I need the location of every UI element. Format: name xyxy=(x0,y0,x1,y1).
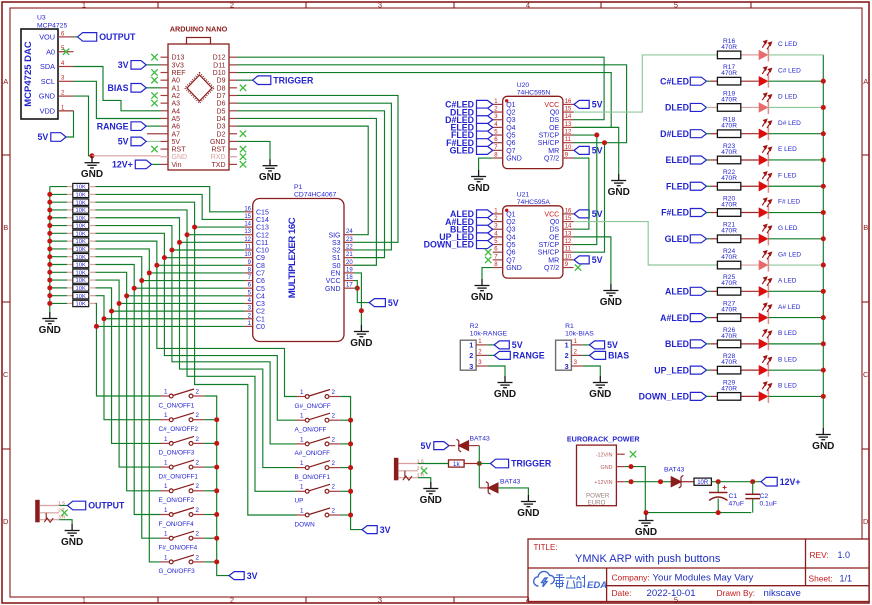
svg-text:1: 1 xyxy=(300,389,304,396)
switch D_ON/OFF3 xyxy=(161,436,205,445)
svg-text:1: 1 xyxy=(164,554,168,561)
junction 10K bus row 4 xyxy=(47,207,52,212)
svg-text:F#_ON/OFF4: F#_ON/OFF4 xyxy=(159,545,198,552)
svg-text:SH/CP: SH/CP xyxy=(538,140,560,147)
svg-text:E LED: E LED xyxy=(778,146,797,153)
junction staircase row 10 xyxy=(139,278,144,283)
net label 3V left column xyxy=(229,572,244,580)
svg-text:Q5: Q5 xyxy=(506,133,515,140)
net label 5V at R2.1 xyxy=(487,344,494,346)
wire LED R22 to bus xyxy=(768,185,823,187)
svg-text:U21: U21 xyxy=(517,192,530,199)
svg-text:1k: 1k xyxy=(453,461,461,468)
svg-text:C LED: C LED xyxy=(778,41,797,48)
svg-text:EURORACK_POWER: EURORACK_POWER xyxy=(567,435,640,444)
svg-text:A0: A0 xyxy=(46,47,55,56)
svg-text:C0: C0 xyxy=(256,324,265,331)
net label D#LED at U20 pin 3 xyxy=(477,116,493,124)
svg-text:C8: C8 xyxy=(256,263,265,270)
svg-text:5V: 5V xyxy=(172,139,181,146)
resistor R20 470R xyxy=(741,212,759,214)
no-connect ARDUINO A0 xyxy=(151,77,157,83)
svg-text:Q4: Q4 xyxy=(506,125,515,132)
resistor 10K row 1 xyxy=(50,186,67,188)
svg-text:2022-10-01: 2022-10-01 xyxy=(647,588,696,599)
svg-text:GND: GND xyxy=(494,389,516,400)
svg-text:D_ON/OFF3: D_ON/OFF3 xyxy=(159,450,195,457)
LED B LED xyxy=(759,365,769,375)
junction 10K bus row 14 xyxy=(47,285,52,290)
wire LED R24 to bus xyxy=(768,264,823,266)
svg-text:VDD: VDD xyxy=(40,107,55,116)
junction LED bus xyxy=(821,236,826,241)
svg-text:GND: GND xyxy=(635,527,657,538)
wire U21 Q0 to R24 xyxy=(574,222,718,265)
svg-text:470R: 470R xyxy=(721,333,737,340)
svg-text:G#_ON/OFF: G#_ON/OFF xyxy=(295,403,331,410)
svg-text:5V: 5V xyxy=(592,255,603,265)
svg-text:1: 1 xyxy=(300,436,304,443)
svg-text:C4: C4 xyxy=(256,293,265,300)
wire P1 SIG to ARDUINO D3 xyxy=(237,126,368,235)
net label DLED at U20 pin 2 xyxy=(477,108,493,116)
wire U20 Q0 to R16 xyxy=(574,55,718,112)
svg-text:D: D xyxy=(3,517,9,526)
svg-text:470R: 470R xyxy=(721,201,737,208)
svg-text:11: 11 xyxy=(245,245,252,251)
net label DOWN_LED at U21 pin 5 xyxy=(477,241,493,249)
no-connect U21 Q7/2 xyxy=(575,264,581,270)
wire U21 OE to ground xyxy=(574,237,611,284)
wire P1 S3 to ARDUINO D7 xyxy=(237,95,398,242)
svg-text:1.0: 1.0 xyxy=(838,550,851,560)
svg-text:GND: GND xyxy=(608,187,630,198)
svg-text:YMNK ARP with push buttons: YMNK ARP with push buttons xyxy=(575,553,721,565)
junction right switch bus xyxy=(348,441,353,446)
no-connect ARDUINO RST xyxy=(151,146,157,152)
svg-text:C2: C2 xyxy=(760,493,769,500)
left switch bus to 3V xyxy=(204,396,229,576)
no-connect TRIGGER jack T xyxy=(421,468,427,474)
resistor 10K row 11 xyxy=(50,264,67,266)
svg-text:C#LED: C#LED xyxy=(660,76,689,86)
wire LED R27 to bus xyxy=(768,317,823,319)
svg-text:B: B xyxy=(863,223,868,232)
wire switch G_ON/OFF3 to bus xyxy=(204,561,217,563)
svg-text:2: 2 xyxy=(230,0,234,9)
svg-text:C15: C15 xyxy=(256,209,269,216)
net label RANGE at ARDUINO A6 xyxy=(146,125,160,127)
svg-text:B: B xyxy=(3,223,8,232)
resistor 10K row 15 xyxy=(50,295,67,297)
wire U20 Q7/2 cascade to U21 DS xyxy=(574,158,589,229)
svg-text:2: 2 xyxy=(332,507,336,514)
svg-text:1: 1 xyxy=(164,483,168,490)
svg-text:47uF: 47uF xyxy=(729,501,745,508)
svg-text:23: 23 xyxy=(346,237,353,243)
svg-text:10K: 10K xyxy=(76,208,86,214)
switch F_ON/OFF4 xyxy=(161,508,205,517)
resistor 10K row 6 xyxy=(50,225,67,227)
wire U3 SCL to ARDUINO A5 xyxy=(74,81,161,118)
resistor R19 470R xyxy=(741,106,759,108)
wire switch UP to bus xyxy=(340,490,350,492)
wire ARDUINO D11 to U20 SH/CP xyxy=(237,65,627,143)
svg-text:470R: 470R xyxy=(721,175,737,182)
wire LED R16 to bus xyxy=(768,54,823,56)
wire 10K row 2 to P1 C14 xyxy=(96,194,245,219)
svg-text:1: 1 xyxy=(164,388,168,395)
wire LED R26 to bus xyxy=(768,343,823,345)
svg-text:5V: 5V xyxy=(592,100,603,110)
junction left switch bus xyxy=(214,417,219,422)
net label C#LED at U20 pin 1 xyxy=(477,100,493,108)
net label 5V at U20 VCC xyxy=(574,100,589,108)
svg-text:G# LED: G# LED xyxy=(778,251,801,258)
svg-text:10K: 10K xyxy=(76,286,86,292)
svg-text:nikscave: nikscave xyxy=(764,588,801,599)
resistor R25 470R xyxy=(741,290,759,292)
junction LED bus xyxy=(821,341,826,346)
svg-text:GLED: GLED xyxy=(450,146,474,156)
ground below OUTPUT jack xyxy=(65,524,80,536)
svg-text:470R: 470R xyxy=(721,96,737,103)
svg-text:5V: 5V xyxy=(421,441,432,451)
svg-text:D7: D7 xyxy=(217,93,226,100)
svg-text:ELED: ELED xyxy=(666,155,689,165)
wire 10K row 9 to P1 C7 and switch 8 left column xyxy=(96,249,161,562)
svg-text:2: 2 xyxy=(565,351,569,360)
svg-text:GND: GND xyxy=(601,465,613,471)
LED B LED xyxy=(759,391,769,401)
svg-text:3: 3 xyxy=(469,362,473,371)
wire switch D#_ON/OFF1 to bus xyxy=(204,466,217,468)
LED A LED xyxy=(759,286,769,296)
switch D#_ON/OFF1 xyxy=(161,460,205,469)
svg-text:10K: 10K xyxy=(76,263,86,269)
wire 10K row 14 to P1 C2 and switch 3 left column xyxy=(96,288,161,444)
resistor 10K row 9 xyxy=(50,248,67,250)
wire diode to 10R xyxy=(681,481,694,483)
svg-text:C# LED: C# LED xyxy=(778,67,801,74)
switch A_ON/OFF xyxy=(297,413,341,422)
wire U20 ST/CP to U21 ST/CP xyxy=(574,134,597,136)
svg-text:GND: GND xyxy=(350,338,372,349)
wire LED R21 to bus xyxy=(768,238,823,240)
net label ALED feeding R25 xyxy=(690,287,706,295)
LED A# LED xyxy=(759,312,769,322)
svg-text:DLED: DLED xyxy=(665,103,689,113)
wire LED R29 to bus xyxy=(768,395,823,397)
svg-text:1: 1 xyxy=(164,507,168,514)
svg-text:A5: A5 xyxy=(172,116,181,123)
svg-text:D2: D2 xyxy=(217,131,226,138)
stub wire at ARDUINO A7 xyxy=(147,133,161,135)
svg-text:A7: A7 xyxy=(172,131,181,138)
svg-text:S1: S1 xyxy=(332,255,341,262)
svg-text:3V: 3V xyxy=(118,60,129,70)
svg-text:21: 21 xyxy=(346,252,353,258)
svg-text:16: 16 xyxy=(244,206,251,212)
junction 10K bus row 13 xyxy=(47,278,52,283)
net label FLED feeding R22 xyxy=(690,182,706,190)
resistor 10K row 13 xyxy=(50,279,67,281)
svg-text:3: 3 xyxy=(565,362,569,371)
svg-text:D4: D4 xyxy=(217,116,226,123)
svg-text:C2: C2 xyxy=(256,309,265,316)
junction 10K bus row 3 xyxy=(47,200,52,205)
switch F#_ON/OFF4 xyxy=(161,531,205,540)
svg-text:D LED: D LED xyxy=(778,94,797,101)
LED C LED xyxy=(759,50,769,60)
junction staircase row 8 xyxy=(154,263,159,268)
net label UP_LED feeding R28 xyxy=(690,366,706,374)
svg-text:G_ON/OFF3: G_ON/OFF3 xyxy=(159,568,196,575)
svg-text:15: 15 xyxy=(565,216,572,222)
wire LED R18 to bus xyxy=(768,133,823,135)
svg-text:11: 11 xyxy=(565,247,572,253)
wire U3 VDD to 5V flag xyxy=(58,110,74,112)
svg-text:B LED: B LED xyxy=(778,383,797,390)
ground right of ARDUINO xyxy=(263,159,278,171)
junction 10K bus row 12 xyxy=(47,270,52,275)
wire switch A_ON/OFF to bus xyxy=(340,419,350,421)
svg-text:D6: D6 xyxy=(217,101,226,108)
net label 5V at R1.1 xyxy=(583,344,590,346)
svg-text:20: 20 xyxy=(346,260,353,266)
svg-text:D: D xyxy=(863,517,869,526)
svg-text:GND: GND xyxy=(506,265,522,272)
svg-text:10R: 10R xyxy=(697,480,709,486)
resistor 1k xyxy=(449,460,465,467)
ground below power xyxy=(639,514,654,526)
svg-text:C11: C11 xyxy=(256,240,268,247)
svg-text:RST: RST xyxy=(172,147,187,154)
svg-text:GND: GND xyxy=(517,508,539,519)
svg-text:GND: GND xyxy=(812,441,834,452)
svg-text:MR: MR xyxy=(548,257,559,264)
title block xyxy=(528,539,869,602)
svg-text:UP: UP xyxy=(295,498,304,505)
svg-text:A#_ON/OFF: A#_ON/OFF xyxy=(295,450,331,457)
junction 10K bus row 6 xyxy=(47,223,52,228)
svg-text:Q6: Q6 xyxy=(506,140,515,147)
svg-text:10K: 10K xyxy=(76,192,86,198)
junction left switch bus xyxy=(214,465,219,470)
net label 3V at ARDUINO 3V3 xyxy=(146,64,160,66)
LED F# LED xyxy=(759,207,769,217)
svg-text:470R: 470R xyxy=(721,228,737,235)
LED E LED xyxy=(759,155,769,165)
svg-text:+12VIN: +12VIN xyxy=(594,480,612,486)
svg-text:EN: EN xyxy=(331,271,341,278)
wire switch F#_ON/OFF4 to bus xyxy=(204,537,217,539)
resistor 10K row 10 xyxy=(50,256,67,258)
wire 10K row 5 to P1 C11 and switch column right xyxy=(96,218,297,468)
junction SH/CP xyxy=(602,140,607,145)
wire LED R28 to bus xyxy=(768,369,823,371)
svg-text:470R: 470R xyxy=(721,307,737,314)
svg-text:19: 19 xyxy=(346,267,353,273)
net label BIAS at R1.2 xyxy=(583,354,590,356)
svg-text:1: 1 xyxy=(300,507,304,514)
svg-text:12V+: 12V+ xyxy=(112,160,133,170)
net label ALED at U21 pin 1 xyxy=(477,210,493,218)
wire R1.3 to ground xyxy=(583,366,601,376)
junction left switch bus xyxy=(214,441,219,446)
resistor 10K row 14 xyxy=(50,287,67,289)
junction C2 top xyxy=(750,479,755,484)
svg-text:GND: GND xyxy=(39,325,61,336)
svg-text:P1: P1 xyxy=(294,184,303,191)
net label GLED at U20 pin 7 xyxy=(477,146,493,154)
no-connect ARDUINO A2 xyxy=(151,92,157,98)
resistor 10K row 7 xyxy=(50,232,67,234)
junction C1 top xyxy=(716,479,721,484)
svg-text:TITLE:: TITLE: xyxy=(534,543,558,552)
svg-text:A: A xyxy=(863,77,868,86)
svg-text:1: 1 xyxy=(565,341,569,350)
switch UP xyxy=(297,484,341,493)
svg-text:C12: C12 xyxy=(256,232,269,239)
capacitor C2 0.1uF xyxy=(752,482,754,495)
svg-text:10K: 10K xyxy=(76,231,86,237)
svg-text:GND: GND xyxy=(471,292,493,303)
junction U3 GND / ARDUINO GND xyxy=(90,153,95,158)
net label 3V right column xyxy=(362,526,377,534)
junction TRIGGER node xyxy=(477,461,482,466)
svg-text:EDA: EDA xyxy=(587,580,607,591)
net label BIAS at ARDUINO A1 xyxy=(146,87,160,89)
svg-text:Drawn By:: Drawn By: xyxy=(717,588,756,598)
wire P1 S2 to ARDUINO D6 xyxy=(237,103,391,250)
svg-text:14: 14 xyxy=(565,114,572,120)
junction staircase row 7 xyxy=(162,255,167,260)
net label UP_LED at U21 pin 4 xyxy=(477,233,493,241)
resistor 10R xyxy=(694,478,711,485)
svg-text:MULTIPLEXER 16C: MULTIPLEXER 16C xyxy=(287,217,298,298)
svg-text:GND: GND xyxy=(210,139,226,146)
svg-text:ST/CP: ST/CP xyxy=(539,242,560,249)
wire U20 OE to ground xyxy=(574,127,619,174)
svg-text:10: 10 xyxy=(244,252,251,258)
svg-text:D12: D12 xyxy=(213,55,226,62)
svg-text:18: 18 xyxy=(346,275,353,281)
svg-text:POWER: POWER xyxy=(586,493,610,500)
junction staircase row 13 xyxy=(117,301,122,306)
svg-text:VOU: VOU xyxy=(39,33,55,42)
svg-text:GND: GND xyxy=(259,172,281,183)
svg-text:Q7/2: Q7/2 xyxy=(544,156,559,163)
resistor R18 470R xyxy=(741,133,759,135)
junction ST/CP xyxy=(594,133,599,138)
resistor 10K row 4 xyxy=(50,209,67,211)
svg-text:2: 2 xyxy=(196,388,200,395)
net label BLED feeding R26 xyxy=(690,340,706,348)
wire 10K row 15 to P1 C1 and switch 2 left column xyxy=(96,296,161,420)
svg-text:5V: 5V xyxy=(38,132,49,142)
net label GLED feeding R21 xyxy=(690,235,706,243)
svg-text:Q3: Q3 xyxy=(506,227,515,234)
wire P1 VCC to 5V xyxy=(354,281,369,303)
svg-text:RANGE: RANGE xyxy=(513,351,545,361)
svg-text:CD74HC4067: CD74HC4067 xyxy=(294,192,337,199)
wire LED R20 to bus xyxy=(768,212,823,214)
ground below U3 xyxy=(85,156,100,168)
no-connect OUTPUT jack T xyxy=(61,510,67,516)
svg-text:14: 14 xyxy=(565,224,572,230)
svg-text:GLED: GLED xyxy=(665,234,689,244)
LED cathode bus xyxy=(822,55,824,428)
switch DOWN xyxy=(297,508,341,517)
svg-text:5V: 5V xyxy=(118,137,129,147)
LED D LED xyxy=(759,102,769,112)
capacitor C1 47uF xyxy=(717,482,719,493)
svg-text:12: 12 xyxy=(565,239,572,245)
svg-text:2: 2 xyxy=(196,554,200,561)
wire switch C#_ON/OFF2 to bus xyxy=(204,419,217,421)
svg-text:1: 1 xyxy=(82,595,86,604)
wire 10K row 1 to P1 C15 xyxy=(96,187,245,212)
svg-text:C_ON/OFF1: C_ON/OFF1 xyxy=(159,402,195,409)
svg-text:5V: 5V xyxy=(388,298,399,308)
svg-text:BAT43: BAT43 xyxy=(500,479,520,486)
svg-text:10K: 10K xyxy=(76,200,86,206)
wire 10K row 7 to P1 C9 and switch column right xyxy=(96,233,297,420)
wire switch D_ON/OFF3 to bus xyxy=(204,442,217,444)
wire 10K row 6 to P1 C10 and switch column right xyxy=(96,226,297,444)
svg-text:1: 1 xyxy=(300,484,304,491)
svg-text:3: 3 xyxy=(378,0,382,9)
svg-text:13: 13 xyxy=(565,231,572,237)
no-connect -12VIN xyxy=(630,451,636,457)
ground for U21 OE xyxy=(603,284,618,296)
svg-text:2: 2 xyxy=(196,507,200,514)
svg-text:2: 2 xyxy=(230,595,234,604)
svg-text:ARDUINO NANO: ARDUINO NANO xyxy=(170,25,228,34)
svg-text:BAT43: BAT43 xyxy=(664,467,684,474)
ground rail bottom xyxy=(645,512,751,514)
junction 10K bus row 2 xyxy=(47,192,52,197)
svg-text:1: 1 xyxy=(164,436,168,443)
no-connect ARDUINO D2 xyxy=(240,131,246,137)
svg-text:F#LED: F#LED xyxy=(661,208,689,218)
wire U21 GND to ground xyxy=(482,268,493,279)
ground for U20 OE xyxy=(611,174,626,186)
svg-text:REV:: REV: xyxy=(810,550,829,560)
switch G#_ON/OFF xyxy=(297,390,341,399)
wire 10K row 3 to P1 C13 and switch column right xyxy=(96,202,297,515)
svg-text:SH/CP: SH/CP xyxy=(538,250,560,257)
wire OUTPUT jack R to ground xyxy=(59,520,72,524)
svg-text:C: C xyxy=(3,370,9,379)
svg-text:ST/CP: ST/CP xyxy=(539,133,560,140)
resistor R27 470R xyxy=(741,317,759,319)
svg-text:D#_ON/OFF1: D#_ON/OFF1 xyxy=(159,473,199,480)
svg-text:D8: D8 xyxy=(217,85,226,92)
net label 5V at U21 VCC xyxy=(574,210,589,218)
svg-text:F LED: F LED xyxy=(778,172,797,179)
ground below BAT43 xyxy=(521,495,536,507)
svg-text:5V: 5V xyxy=(512,340,523,350)
junction staircase row 15 xyxy=(102,316,107,321)
svg-text:10K: 10K xyxy=(76,294,86,300)
svg-text:10K: 10K xyxy=(76,278,86,284)
wire P1 S1 to ARDUINO D5 xyxy=(237,111,385,258)
svg-text:C13: C13 xyxy=(256,225,269,232)
svg-text:10K: 10K xyxy=(76,239,86,245)
svg-text:-12VIN: -12VIN xyxy=(596,452,613,458)
